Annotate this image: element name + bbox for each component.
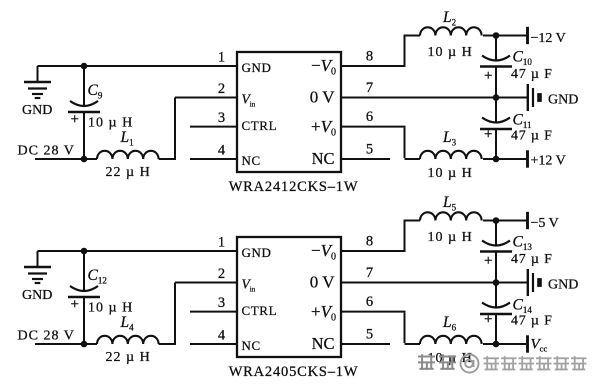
inductor L6 (420, 336, 482, 344)
svg-text:GND: GND (548, 278, 578, 293)
module WRA2412CKS-1W (DC-DC converter) (237, 52, 341, 172)
svg-text:1: 1 (218, 235, 225, 251)
svg-text:6: 6 (366, 294, 373, 310)
node: input GND junction (81, 248, 88, 255)
svg-text:+: + (71, 112, 79, 128)
svg-text:10 µ H: 10 µ H (428, 45, 473, 60)
svg-text:GND: GND (22, 288, 52, 303)
wire: DC 28 V feed (35, 158, 97, 160)
svg-text:GND: GND (22, 103, 52, 118)
svg-text:NC: NC (242, 338, 261, 353)
node: −5 V output junction (493, 217, 500, 224)
module WRA2405CKS-1W (DC-DC converter) (237, 237, 341, 357)
inductor L1 (97, 151, 159, 159)
node: −12 V output junction (493, 32, 500, 39)
svg-text:0 V: 0 V (310, 88, 335, 107)
wire: L1 to pin 2 (159, 98, 237, 161)
wire: pin 4 stub (NC open) (190, 158, 237, 160)
svg-text:1: 1 (218, 50, 225, 66)
node: Vcc output junction (493, 341, 500, 348)
wire: pin 5 stub (NC open) (341, 158, 390, 160)
svg-text:22 µ H: 22 µ H (106, 350, 151, 365)
capacitor C13 (480, 221, 512, 283)
svg-text:DC 28 V: DC 28 V (18, 144, 75, 159)
wire: input GND rail to pin 1 (WRA2412CKS-1W) (38, 65, 238, 67)
inductor L5 (420, 212, 482, 220)
inductor L4 (97, 336, 159, 344)
svg-text:CTRL: CTRL (242, 303, 278, 318)
svg-text:−5 V: −5 V (531, 216, 559, 231)
terminal bar +12 V (526, 150, 529, 167)
terminal bar −12 V (526, 27, 529, 44)
terminal bar −5 V (526, 212, 529, 229)
wire: L4 to pin 2 (159, 283, 237, 346)
wire: pin 8 to L5 (341, 220, 420, 253)
svg-text:GND: GND (242, 60, 272, 75)
svg-text:3: 3 (218, 110, 225, 126)
svg-text:+: + (484, 312, 492, 328)
node: +12 V output junction (493, 156, 500, 163)
capacitor C11 (480, 98, 512, 160)
svg-text:NC: NC (312, 149, 335, 168)
wire: pin 3 stub (CTRL open) (190, 126, 237, 128)
node: 0 V junction (493, 279, 500, 286)
wire: pin 6 to L3 (341, 127, 420, 159)
svg-text:8: 8 (366, 49, 373, 65)
svg-text:WRA2405CKS–1W: WRA2405CKS–1W (229, 364, 359, 380)
ground (input) (24, 251, 51, 283)
svg-text:2: 2 (218, 266, 225, 282)
svg-text:47 µ F: 47 µ F (511, 314, 553, 329)
wire: pin 5 stub (NC open) (341, 343, 390, 345)
node: DC input junction (81, 156, 88, 163)
svg-text:3: 3 (218, 295, 225, 311)
wire: L5 to −5 V terminal (483, 220, 527, 222)
wire: pin 3 stub (CTRL open) (190, 311, 237, 313)
node: input GND junction (81, 63, 88, 70)
svg-text:NC: NC (242, 153, 261, 168)
node: DC input junction (81, 341, 88, 348)
svg-text:5: 5 (366, 327, 373, 343)
svg-text:0 V: 0 V (310, 273, 335, 292)
svg-text:DC 28 V: DC 28 V (18, 329, 75, 344)
inductor L3 (420, 151, 482, 159)
terminal bar Vcc (526, 335, 529, 352)
wire: pin 6 to L6 (341, 312, 420, 344)
svg-text:7: 7 (366, 265, 373, 281)
capacitor C10 (480, 36, 512, 98)
svg-text:7: 7 (366, 80, 373, 96)
inductor L2 (420, 27, 482, 35)
wire: pin 7 (0 V) to output GND (341, 282, 527, 284)
svg-text:+: + (484, 68, 492, 84)
node: 0 V junction (493, 94, 500, 101)
svg-text:+: + (484, 253, 492, 269)
wire: L3 to +12 V terminal (483, 158, 527, 160)
capacitor C12 (68, 251, 100, 344)
svg-text:+: + (484, 127, 492, 143)
svg-text:4: 4 (218, 328, 226, 344)
ground (output) (528, 269, 542, 296)
wire: pin 7 (0 V) to output GND (341, 97, 527, 99)
svg-text:5: 5 (366, 142, 373, 158)
svg-text:10 µ H: 10 µ H (428, 166, 473, 181)
svg-text:6: 6 (366, 109, 373, 125)
capacitor C14 (480, 283, 512, 345)
wire: pin 4 stub (NC open) (190, 343, 237, 345)
svg-text:22 µ H: 22 µ H (106, 165, 151, 180)
ground (output) (528, 84, 542, 111)
wire: L6 to Vcc terminal (483, 343, 527, 345)
svg-text:10 µ H: 10 µ H (428, 230, 473, 245)
capacitor C9 (68, 66, 100, 159)
svg-text:GND: GND (548, 93, 578, 108)
wire: input GND rail to pin 1 (WRA2405CKS-1W) (38, 250, 238, 252)
svg-text:GND: GND (242, 245, 272, 260)
svg-text:WRA2412CKS–1W: WRA2412CKS–1W (229, 179, 359, 195)
svg-text:CTRL: CTRL (242, 118, 278, 133)
watermark (gray logo text) (418, 354, 587, 372)
ground (input) (24, 66, 51, 98)
svg-text:NC: NC (312, 334, 335, 353)
wire: L2 to −12 V terminal (483, 35, 527, 37)
svg-text:+12 V: +12 V (531, 154, 566, 169)
svg-text:47 µ F: 47 µ F (511, 67, 553, 82)
wire: DC 28 V feed (35, 343, 97, 345)
svg-text:2: 2 (218, 81, 225, 97)
svg-text:47 µ F: 47 µ F (511, 129, 553, 144)
wire: pin 8 to L2 (341, 35, 420, 68)
svg-text:47 µ F: 47 µ F (511, 252, 553, 267)
svg-text:+: + (71, 297, 79, 313)
svg-text:−12 V: −12 V (531, 31, 566, 46)
svg-text:8: 8 (366, 234, 373, 250)
svg-text:4: 4 (218, 143, 226, 159)
